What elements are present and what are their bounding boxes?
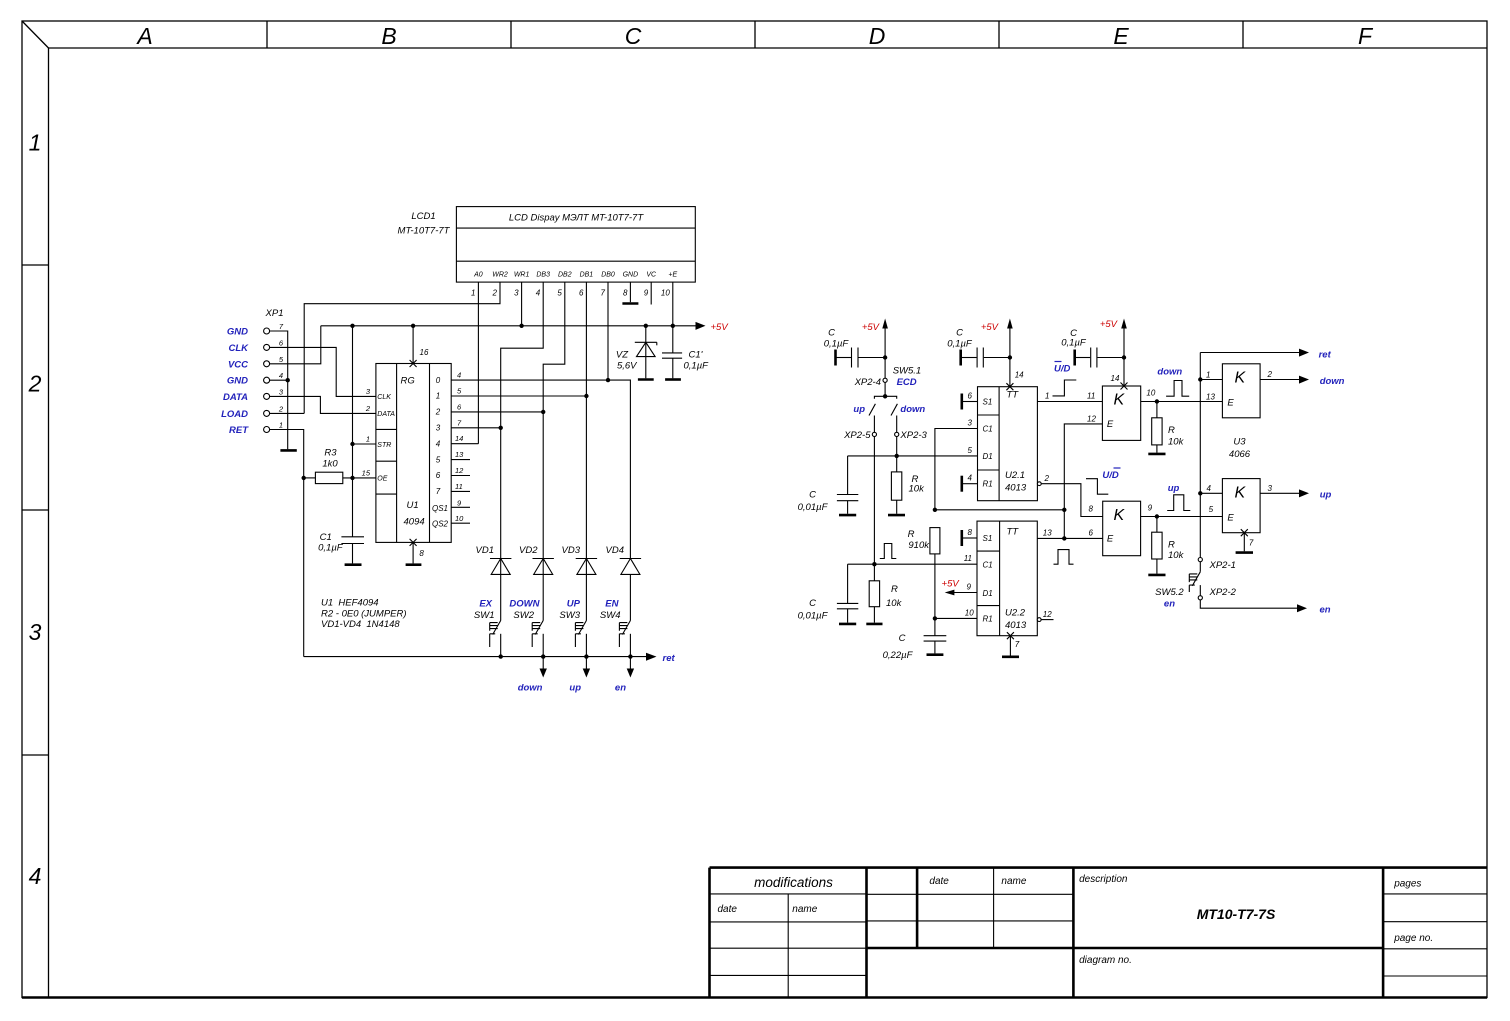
svg-text:VZ: VZ [616, 350, 629, 361]
svg-text:XP2-2: XP2-2 [1209, 587, 1237, 598]
svg-text:1: 1 [436, 392, 440, 401]
U2.2 pin 7 ground [1002, 632, 1020, 657]
svg-text:RET: RET [229, 425, 249, 436]
U2.2 R1 pin 10 [933, 608, 977, 620]
U1 pin 8 ground [406, 539, 425, 565]
selector switch SW5.1 [853, 394, 925, 432]
svg-text:GND: GND [227, 376, 248, 387]
svg-text:R1: R1 [983, 615, 993, 624]
svg-text:R: R [1168, 540, 1175, 551]
svg-text:2: 2 [492, 289, 498, 298]
svg-text:up: up [1168, 483, 1180, 494]
svg-text:ret: ret [1319, 350, 1332, 361]
svg-text:LOAD: LOAD [221, 409, 248, 420]
ground symbol C 0.01uF lower [839, 623, 856, 626]
svg-text:en: en [1320, 605, 1331, 616]
common vertical to XP2-1 [1198, 353, 1202, 558]
svg-text:6: 6 [579, 289, 584, 298]
svg-text:DB3: DB3 [536, 272, 550, 279]
resistor R3 1k0 [302, 448, 376, 484]
svg-text:10k: 10k [886, 598, 903, 609]
svg-text:CLK: CLK [228, 343, 249, 354]
connector pin XP2-2 [1198, 587, 1236, 600]
step-up waveform at pin 1 [1053, 380, 1077, 396]
svg-text:4: 4 [436, 439, 441, 448]
svg-text:down: down [1320, 376, 1345, 387]
svg-text:3: 3 [968, 419, 973, 428]
svg-text:SW1: SW1 [474, 610, 495, 621]
svg-text:name: name [792, 904, 817, 915]
svg-text:12: 12 [455, 466, 464, 475]
svg-text:K: K [1235, 485, 1247, 502]
svg-text:5: 5 [1209, 505, 1214, 514]
svg-text:GND: GND [227, 327, 248, 338]
svg-text:3: 3 [1268, 484, 1273, 493]
shift register U1 4094 [376, 364, 451, 543]
svg-text:U2.2: U2.2 [1005, 608, 1026, 619]
svg-text:1: 1 [471, 289, 475, 298]
wire U1 out3 to DB3/VD1 [451, 427, 501, 429]
K lower-right pin 7 ground [1236, 529, 1254, 552]
svg-text:DB0: DB0 [601, 272, 615, 279]
svg-text:D: D [869, 23, 886, 49]
svg-text:R1: R1 [983, 480, 993, 489]
svg-text:R: R [891, 584, 898, 595]
svg-text:2: 2 [28, 371, 42, 397]
svg-text:VCC: VCC [228, 359, 248, 370]
svg-text:11: 11 [964, 554, 972, 563]
svg-text:11: 11 [1087, 392, 1095, 401]
svg-text:0: 0 [436, 376, 441, 385]
svg-text:XP1: XP1 [265, 308, 284, 319]
svg-text:16: 16 [420, 348, 429, 357]
svg-text:6: 6 [1089, 529, 1094, 538]
svg-text:4066: 4066 [1229, 449, 1251, 460]
svg-text:+E: +E [668, 272, 677, 279]
step-down waveform at U/D [1086, 479, 1108, 495]
svg-text:3: 3 [436, 424, 441, 433]
svg-text:EX: EX [479, 599, 492, 610]
diode VD3 [562, 396, 598, 621]
ground bar at LCD pin8 [622, 302, 638, 305]
wire LCD pin3 WR1 to +5V rail [521, 282, 523, 326]
svg-text:name: name [1001, 876, 1026, 887]
wire XP1 pin1 RET down to ret line [270, 430, 304, 657]
svg-text:0,1µF: 0,1µF [318, 543, 344, 554]
svg-text:EN: EN [605, 599, 619, 610]
wire U1 out0 to DB0 and VD4 [451, 380, 630, 558]
svg-text:8: 8 [968, 528, 973, 537]
K upper-right output pin 2 to down arrow [1260, 370, 1345, 387]
capacitor C 0.1uF column 3 [1061, 328, 1126, 368]
svg-text:TT: TT [1007, 390, 1020, 401]
svg-text:UP: UP [567, 599, 581, 610]
svg-text:5: 5 [968, 446, 973, 455]
svg-text:modifications: modifications [754, 875, 833, 890]
pulse waveform up [1167, 495, 1190, 511]
ground symbol C1 [345, 563, 362, 566]
ground symbol C 0.01uF upper [839, 514, 856, 517]
K lower-right output pin 3 to up arrow [1260, 484, 1331, 501]
svg-text:LCD1: LCD1 [411, 211, 435, 222]
net arrow up under SW3 [569, 657, 590, 694]
svg-text:1: 1 [366, 435, 370, 444]
feedback line Q2 to C1 [933, 508, 1067, 512]
flip-flop U2.2 4013 [977, 521, 1037, 636]
svg-text:0,1µF: 0,1µF [1061, 338, 1087, 349]
svg-text:XP2-4: XP2-4 [854, 377, 881, 388]
XP1 signal names [221, 327, 249, 437]
wire XP1 pin7 GND to ground bus [270, 331, 288, 449]
svg-text:diagram no.: diagram no. [1079, 955, 1132, 966]
svg-text:D1: D1 [983, 589, 993, 598]
svg-text:XP2-1: XP2-1 [1209, 560, 1236, 571]
U2.1 R1 pin 4 grounded [962, 474, 978, 492]
pulse waveform down [1166, 381, 1189, 397]
svg-text:0,1µF: 0,1µF [684, 361, 710, 372]
svg-text:4: 4 [29, 863, 42, 889]
svg-text:TT: TT [1007, 527, 1020, 538]
parts note text [321, 598, 407, 631]
svg-text:VC: VC [646, 272, 657, 279]
wire XP1 pin6 CLK to U1 CLK [270, 347, 376, 396]
analog switch K upper-left 4066 [1102, 374, 1140, 440]
analog switch K upper-right 4066 [1222, 364, 1260, 418]
svg-text:910k: 910k [908, 540, 930, 551]
svg-text:down: down [1157, 367, 1182, 378]
wire LCD pin5 DB2 jog to VD2 column [543, 282, 565, 412]
svg-text:MT-10T7-7T: MT-10T7-7T [398, 226, 451, 237]
resistor R 10k at pin 10 [1152, 402, 1185, 453]
svg-text:date: date [718, 904, 738, 915]
wire U1 out1 to DB1/VD3 [451, 395, 586, 397]
junction +5V rail at +E [671, 324, 675, 328]
svg-text:S1: S1 [983, 534, 993, 543]
pushbutton SW4 EN [600, 599, 630, 657]
diode VD1 [476, 428, 512, 621]
svg-text:S1: S1 [983, 398, 993, 407]
wire +5V to STR/OE pull vertical [352, 326, 354, 537]
U2.1 Q output pin 1 [1037, 391, 1102, 401]
svg-text:R3: R3 [324, 448, 337, 459]
wire XP1 pin5 VCC up to +5V rail [270, 326, 321, 364]
resistor R 10k on C1 net [869, 564, 902, 622]
svg-text:0,01µF: 0,01µF [798, 611, 829, 622]
svg-text:13: 13 [1206, 393, 1215, 402]
ground symbol XP1 [280, 449, 296, 452]
LCD display LCD1 MT-10T7-7T [456, 207, 695, 283]
svg-text:U3: U3 [1233, 437, 1246, 448]
U1 pin 16 to +5V [410, 324, 429, 367]
svg-text:C: C [828, 328, 835, 339]
junction GND bus [286, 378, 290, 382]
svg-text:STR: STR [377, 442, 391, 449]
svg-text:15: 15 [362, 469, 371, 478]
svg-text:4: 4 [1207, 484, 1212, 493]
wire U1 out2 to DB2/VD2 [451, 411, 543, 413]
svg-text:2: 2 [278, 404, 284, 413]
wire LCD pin7 DB0 down to U1 output 0 [607, 282, 609, 380]
svg-text:VD1-VD4 1N4148: VD1-VD4 1N4148 [321, 619, 400, 630]
ground symbol VZ [638, 378, 654, 381]
svg-text:up: up [1320, 490, 1332, 501]
XP1 pin circles [264, 328, 270, 433]
svg-text:E: E [1113, 23, 1129, 49]
K lower-left output pin 9 [1141, 503, 1223, 518]
wire LCD pin2 WR2 down and left to LOAD [304, 282, 500, 413]
svg-text:C1: C1 [983, 561, 993, 570]
svg-text:XP2-3: XP2-3 [899, 430, 927, 441]
svg-text:2: 2 [435, 408, 441, 417]
svg-text:LCD Dispay МЭЛТ MT-10T7-7T: LCD Dispay МЭЛТ MT-10T7-7T [509, 213, 644, 224]
ground symbol R 10k pin10 [1148, 453, 1165, 456]
svg-text:D1: D1 [983, 452, 993, 461]
U2.1 S1 pin 6 grounded [962, 392, 978, 410]
svg-text:6: 6 [968, 392, 973, 401]
svg-text:C: C [625, 23, 642, 49]
svg-text:R2 - 0E0 (JUMPER): R2 - 0E0 (JUMPER) [321, 609, 407, 620]
svg-text:2: 2 [365, 404, 371, 413]
U2.2 inverted output pin 12 stub [1037, 610, 1053, 621]
svg-text:C1: C1 [320, 532, 332, 543]
svg-text:A0: A0 [473, 272, 483, 279]
net arrow down under SW2 [518, 657, 547, 694]
svg-text:VD3: VD3 [562, 545, 581, 556]
svg-text:E: E [1107, 534, 1114, 545]
svg-text:5: 5 [436, 455, 441, 464]
pushbutton SW1 EX [474, 599, 501, 657]
svg-text:0,1µF: 0,1µF [947, 339, 973, 350]
K lower-right input pin 4 [1200, 484, 1222, 493]
wire XP1 pin2 LOAD to WR2 riser [270, 412, 305, 414]
ground symbol R 10k pin9 [1148, 574, 1165, 577]
+5V arrow column 1 [862, 319, 888, 379]
svg-text:3: 3 [29, 619, 42, 645]
svg-text:DOWN: DOWN [509, 599, 540, 610]
svg-text:10: 10 [661, 289, 670, 298]
svg-text:ret: ret [663, 653, 676, 664]
diode VD4 [606, 545, 642, 621]
U2.2 Q pin 13 to K switches [1037, 529, 1102, 539]
svg-text:down: down [900, 404, 925, 415]
wire STR pin1 [353, 443, 376, 445]
LCD pin names A0 WR2 WR1 DB3 DB2 DB1 DB0 GND VC +E [473, 272, 677, 279]
wire XP2-3 down to D1 line [896, 437, 898, 456]
wire LCD pin10 +E down to +5V rail [672, 282, 674, 326]
wire XP1 pin3 DATA to U1 DATA [270, 396, 376, 413]
capacitor C1' 0.1uF [662, 326, 709, 379]
XP1 pin numbers [278, 322, 284, 430]
svg-text:2: 2 [1267, 370, 1273, 379]
svg-text:WR1: WR1 [514, 272, 530, 279]
svg-text:4013: 4013 [1005, 620, 1027, 631]
svg-text:4: 4 [536, 289, 541, 298]
title block [710, 868, 1488, 998]
capacitor C1 0.1uF [318, 532, 364, 563]
svg-text:1: 1 [29, 130, 42, 156]
svg-text:E: E [1227, 513, 1234, 524]
svg-text:R: R [908, 529, 915, 540]
svg-text:U2.1: U2.1 [1005, 470, 1025, 481]
svg-text:up: up [569, 683, 581, 694]
svg-text:2: 2 [1044, 474, 1050, 483]
svg-text:9: 9 [644, 289, 649, 298]
svg-text:10: 10 [965, 608, 974, 617]
svg-text:+5V: +5V [981, 322, 1000, 333]
svg-text:OE: OE [377, 476, 387, 483]
svg-text:B: B [381, 23, 396, 49]
svg-text:en: en [1164, 599, 1175, 610]
svg-text:C: C [956, 328, 963, 339]
svg-text:description: description [1079, 874, 1128, 885]
U2.1 C1 pin 3 [935, 419, 978, 510]
+5V arrow column 3 [1100, 319, 1127, 387]
svg-text:10: 10 [1146, 388, 1155, 397]
svg-text:DB2: DB2 [558, 272, 572, 279]
svg-text:10: 10 [455, 514, 464, 523]
ground symbol R 10k [888, 514, 905, 517]
wire XP1 pin4 GND to ground bus [270, 379, 288, 381]
wire U1 out4 to LCD A0 [451, 443, 478, 445]
svg-text:4094: 4094 [404, 517, 425, 528]
wire LCD pin9 VC stub [650, 282, 652, 304]
svg-text:C1': C1' [689, 350, 704, 361]
net label U/D with overline on D [1102, 468, 1120, 481]
svg-text:10k: 10k [1168, 437, 1185, 448]
svg-text:DATA: DATA [377, 411, 395, 418]
svg-text:7: 7 [1249, 539, 1254, 548]
svg-text:4: 4 [457, 371, 461, 380]
svg-text:7: 7 [601, 289, 606, 298]
svg-text:K: K [1235, 370, 1247, 387]
K upper-right input pin 1 [1200, 370, 1222, 379]
U3 4066 label [1229, 437, 1251, 461]
analog switch K lower-left 4066 [1103, 501, 1141, 556]
D1 line of U2.1 [848, 454, 978, 458]
connector pin XP2-1 [1198, 558, 1236, 572]
svg-text:12: 12 [1043, 610, 1052, 619]
svg-text:+5V: +5V [862, 322, 881, 333]
svg-text:0,22µF: 0,22µF [883, 650, 914, 661]
svg-text:QS1: QS1 [432, 504, 448, 513]
svg-text:8: 8 [419, 549, 424, 558]
svg-text:VD2: VD2 [519, 545, 538, 556]
svg-text:8: 8 [623, 289, 628, 298]
svg-text:9: 9 [967, 583, 972, 592]
wire XP2-5 down to U2.2 C1 line [873, 437, 875, 565]
svg-text:14: 14 [1111, 374, 1120, 383]
U1 left pin numbers [362, 387, 371, 478]
svg-text:VD1: VD1 [476, 545, 494, 556]
svg-text:U1 HEF4094: U1 HEF4094 [321, 598, 379, 609]
svg-text:13: 13 [455, 450, 464, 459]
svg-text:14: 14 [1015, 371, 1024, 380]
svg-text:date: date [929, 876, 949, 887]
svg-text:SW5.1: SW5.1 [893, 366, 922, 377]
svg-text:U/D: U/D [1102, 470, 1119, 481]
svg-text:9: 9 [1148, 503, 1153, 512]
connector pin XP2-4 [854, 366, 922, 397]
svg-text:VD4: VD4 [606, 545, 624, 556]
diode VD2 [519, 412, 554, 621]
analog switch K lower-right 4066 [1222, 479, 1260, 533]
U1 unconnected output stubs pins 13 12 11 9 10 [451, 460, 470, 524]
ground symbol C 0.22uF [927, 653, 944, 656]
svg-text:14: 14 [455, 434, 463, 443]
junction +5V rail at WR1 [519, 324, 523, 328]
svg-text:6: 6 [436, 471, 441, 480]
capacitor C 0.1uF column 1 [824, 328, 888, 368]
svg-text:1: 1 [1045, 391, 1049, 400]
svg-text:CLK: CLK [377, 394, 391, 401]
svg-text:MT10-T7-7S: MT10-T7-7S [1197, 906, 1276, 922]
zener diode VZ 5.6V [616, 324, 657, 379]
svg-text:SW3: SW3 [559, 610, 580, 621]
svg-text:DB1: DB1 [580, 272, 594, 279]
wire LCD pin1 A0 down to U1 output 4 [477, 282, 479, 444]
+5V arrow [696, 322, 706, 330]
LCD pin numbers 1-10 [471, 289, 670, 298]
svg-text:U1: U1 [407, 500, 419, 511]
svg-text:SW4: SW4 [600, 610, 621, 621]
ground symbol R 10k second [866, 623, 882, 626]
svg-text:10k: 10k [909, 484, 926, 495]
svg-text:XP2-5: XP2-5 [843, 430, 871, 441]
svg-text:K: K [1114, 392, 1126, 409]
U2.1 pin 14 to +5V [1006, 371, 1024, 391]
+5V arrow column 2 [981, 319, 1013, 387]
svg-text:C: C [809, 598, 816, 609]
svg-text:SW5.2: SW5.2 [1155, 587, 1184, 598]
pushbutton SW2 DOWN [509, 599, 543, 657]
U1 output labels 0-7 QS1 QS2 [432, 376, 449, 529]
resistor R 910k [908, 528, 940, 619]
wire LCD pin4 DB3 jog to VD1 column [501, 282, 544, 428]
svg-text:1k0: 1k0 [322, 459, 338, 470]
svg-text:RG: RG [401, 376, 415, 387]
U1 right pin numbers [455, 371, 464, 524]
U2.1 inverted output pin 2 [1037, 474, 1102, 517]
svg-text:5: 5 [557, 289, 562, 298]
wire LCD pin6 DB1 down to VD3 column [585, 282, 587, 396]
capacitor C 0.1uF column 2 [947, 328, 1012, 368]
svg-text:C: C [899, 633, 906, 644]
ground symbol C1' [665, 378, 681, 381]
svg-text:4: 4 [968, 474, 973, 483]
svg-text:8: 8 [1089, 505, 1094, 514]
svg-text:down: down [518, 683, 543, 694]
svg-text:F: F [1358, 23, 1374, 49]
svg-text:E: E [1107, 419, 1114, 430]
svg-text:+5V: +5V [1100, 319, 1119, 330]
svg-text:U/D: U/D [1054, 364, 1071, 375]
pulse waveform at pin 13 [1054, 550, 1074, 565]
net arrow en under SW4 [615, 657, 634, 694]
svg-text:C: C [809, 490, 816, 501]
svg-text:10k: 10k [1168, 550, 1185, 561]
connector pin XP2-3 [895, 430, 928, 441]
svg-text:12: 12 [1087, 415, 1096, 424]
svg-text:C1: C1 [983, 425, 993, 434]
svg-text:+5V: +5V [942, 579, 961, 590]
svg-text:GND: GND [623, 272, 639, 279]
resistor R 10k on XP2-3 net [891, 456, 925, 514]
svg-text:E: E [1227, 398, 1234, 409]
svg-text:QS2: QS2 [432, 520, 449, 529]
+5V rail [321, 325, 696, 327]
net label U/D with overline on U [1054, 362, 1071, 375]
svg-text:1: 1 [279, 421, 283, 430]
